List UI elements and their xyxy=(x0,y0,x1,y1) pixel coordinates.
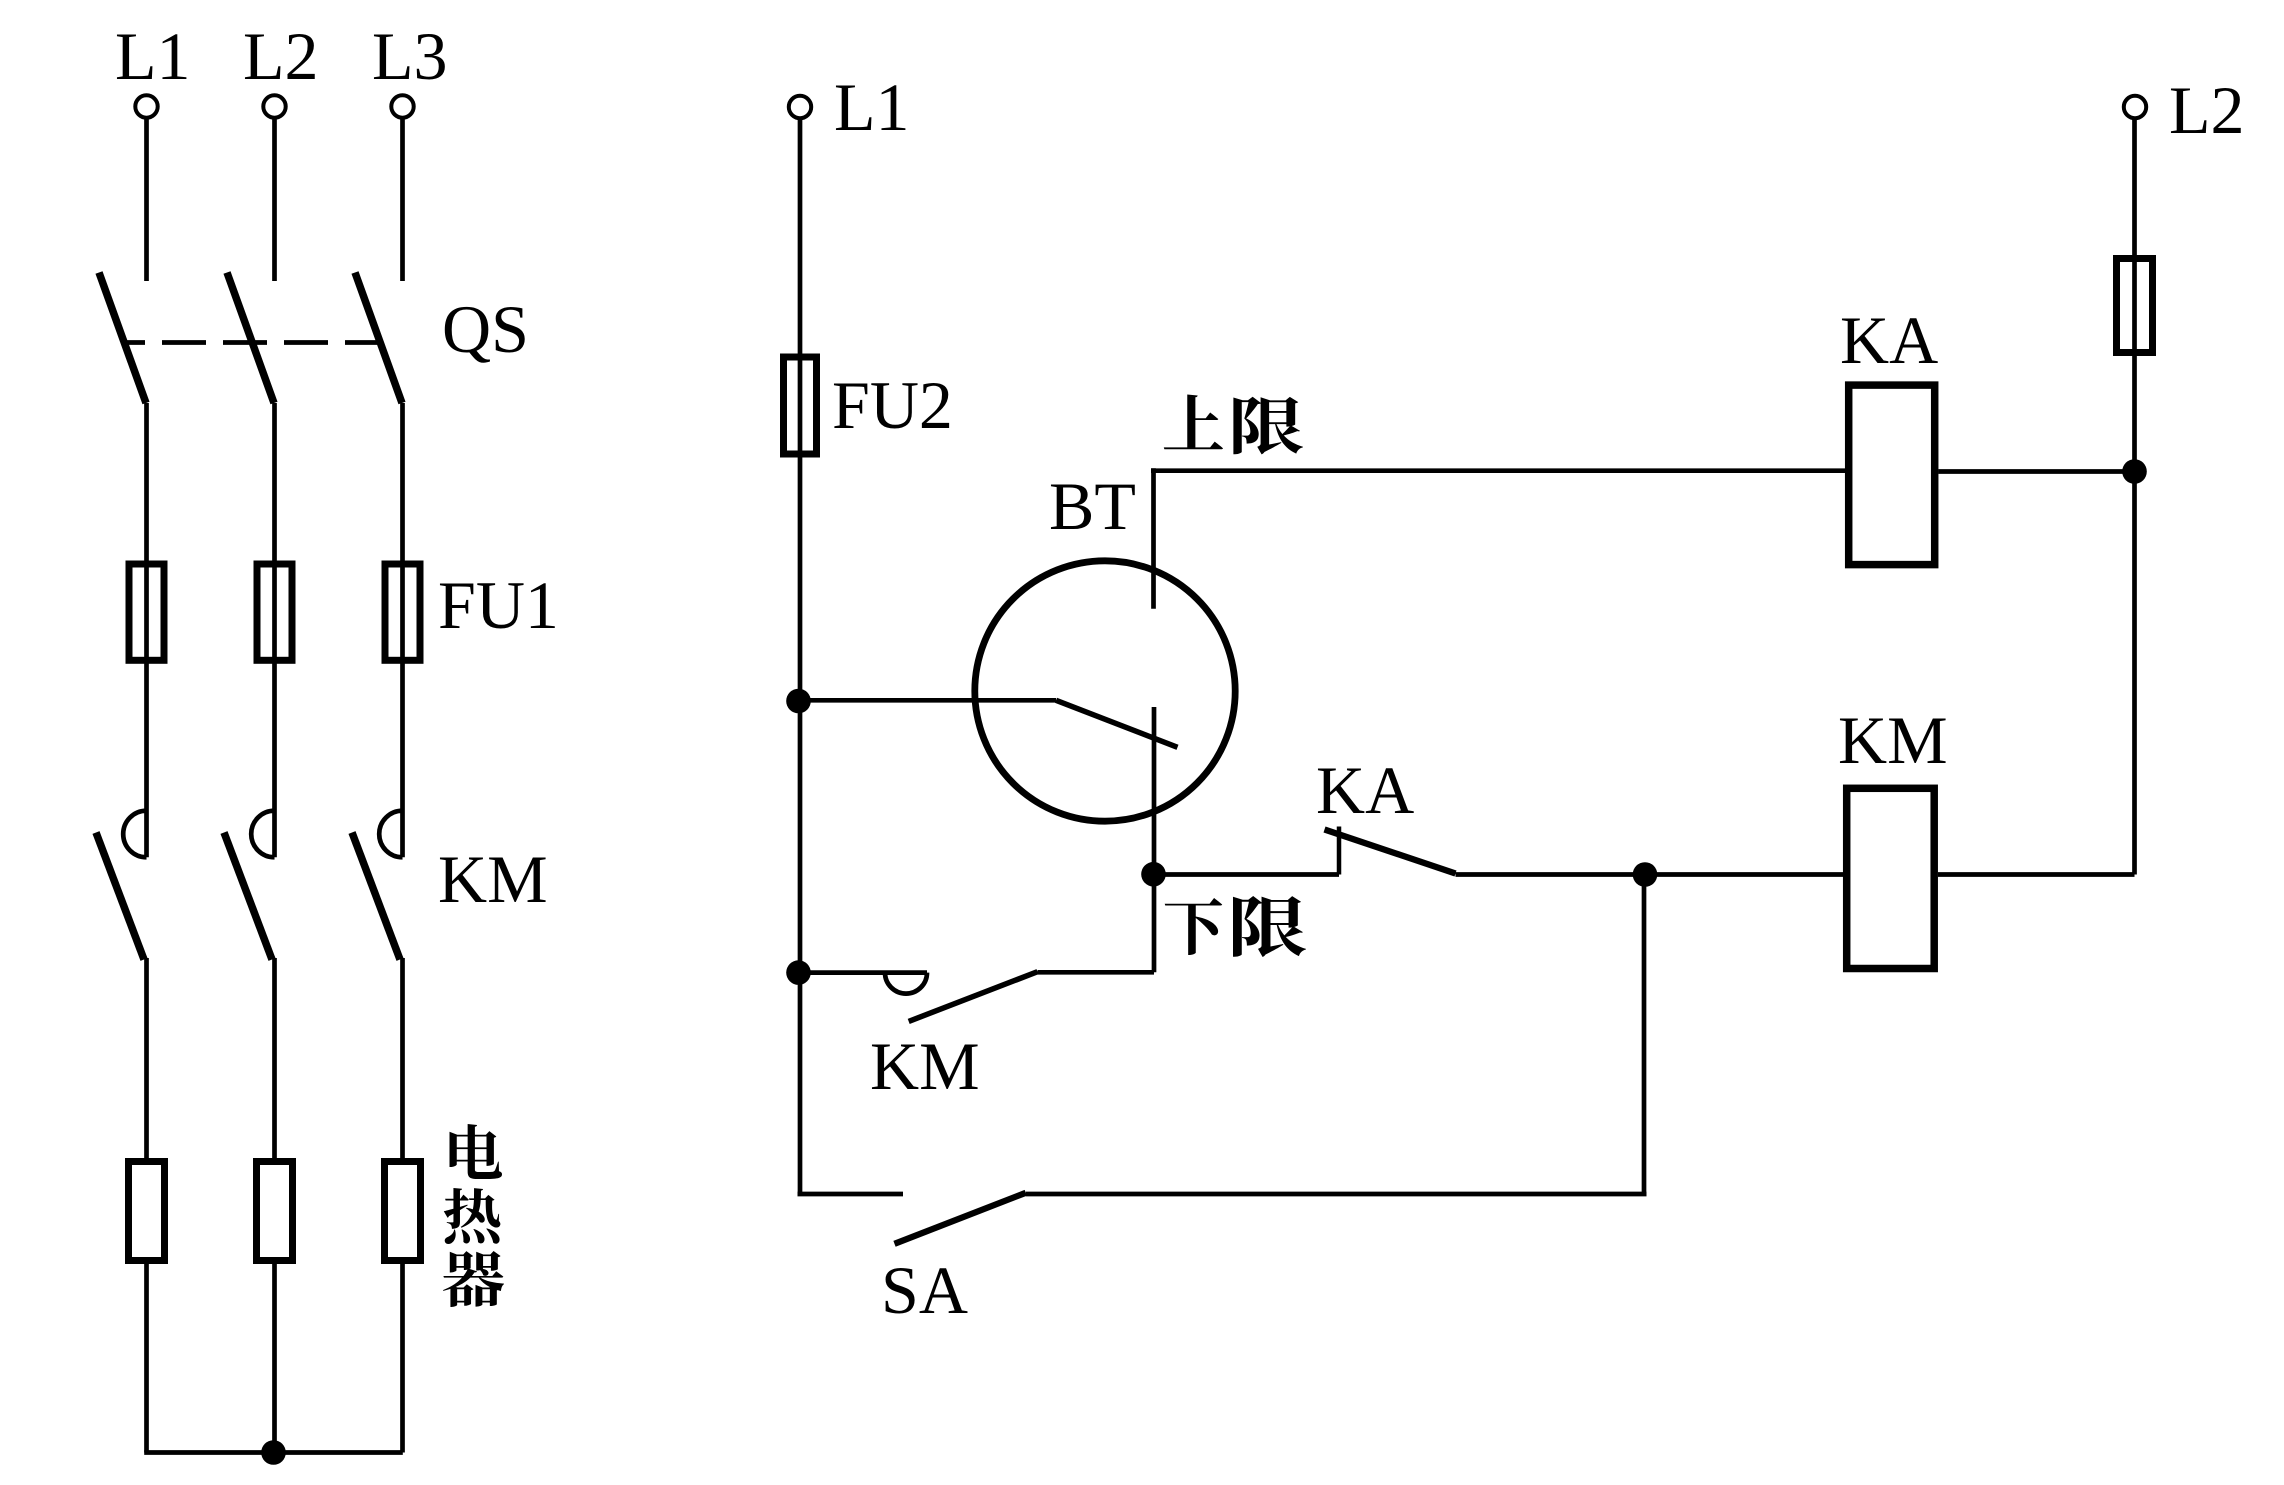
relay coil KA xyxy=(1849,385,1935,564)
svg-text:FU2: FU2 xyxy=(832,367,953,443)
switch SA blade xyxy=(895,1193,1026,1244)
terminal L1 (control) xyxy=(789,96,811,118)
left rail wire (L1 through FU2 down to SA) xyxy=(798,118,803,1195)
svg-text:KA: KA xyxy=(1840,302,1938,378)
heater element 3 xyxy=(385,1162,421,1261)
relay contact KA fixed terminal tick xyxy=(1337,827,1342,875)
svg-text:KA: KA xyxy=(1316,752,1414,828)
thermostat BT dial (circle) xyxy=(975,561,1235,821)
right rail wire (L2 down to KM coil) xyxy=(2132,118,2137,875)
svg-text:BT: BT xyxy=(1049,468,1136,544)
wire QS pole 2 to KM contact (through FU1) xyxy=(272,403,277,857)
heater element 2 xyxy=(257,1162,293,1261)
svg-text:KM: KM xyxy=(438,841,548,917)
wire QS pole 1 to KM contact (through FU1) xyxy=(144,403,149,857)
terminal L1 (power) xyxy=(135,95,157,117)
svg-text:L2: L2 xyxy=(243,18,319,94)
fuse FU2 xyxy=(784,357,817,454)
switch QS pole 2 blade xyxy=(227,273,274,404)
wire SA to riser xyxy=(1026,1192,1647,1197)
contactor KM main contact pole 3 arc xyxy=(379,811,402,858)
wire KA contact to KM node xyxy=(1456,872,1646,877)
svg-text:L1: L1 xyxy=(834,69,910,145)
terminal L3 (power) xyxy=(391,95,413,117)
wire node to KM coil xyxy=(1645,872,1843,877)
svg-text:KM: KM xyxy=(1838,702,1948,778)
switch QS pole 1 blade xyxy=(99,273,146,404)
svg-text:L2: L2 xyxy=(2169,72,2245,148)
contactor KM main contact pole 1 arc xyxy=(123,811,146,858)
wire QS pole 3 to KM contact (through FU1) xyxy=(400,403,405,857)
bottom bus wire (star point) xyxy=(144,1450,403,1455)
contactor KM main contact pole 2 arc xyxy=(251,811,274,858)
wire left rail to KM aux contact xyxy=(800,970,927,975)
fuse FU1 pole 3 xyxy=(385,564,420,660)
wire KM coil to right rail xyxy=(1938,872,2135,877)
wire left rail corner to SA xyxy=(798,1192,904,1197)
terminal L2 (control) xyxy=(2124,96,2146,118)
wire heater 2 to star point xyxy=(272,1261,277,1453)
junction node KM coil / SA riser xyxy=(1633,862,1658,887)
contactor coil KM xyxy=(1847,788,1935,968)
wire L2 drop to QS xyxy=(272,118,277,282)
svg-text:FU1: FU1 xyxy=(438,567,559,643)
wire KM pole 2 to heater xyxy=(272,958,277,1160)
contactor KM main contact pole 2 blade xyxy=(224,833,272,960)
wire lower-limit node to KA contact xyxy=(1154,872,1339,877)
wire KM pole 3 to heater xyxy=(400,958,405,1160)
contactor KM aux contact blade xyxy=(909,972,1038,1022)
svg-text:SA: SA xyxy=(881,1252,968,1328)
junction node BT common xyxy=(786,689,811,714)
junction node KM aux xyxy=(786,960,811,985)
contactor KM aux contact arc xyxy=(885,973,927,994)
junction node at star point xyxy=(261,1440,286,1465)
wire KM pole 1 to heater xyxy=(144,958,149,1160)
wire upper-limit to KA coil xyxy=(1151,468,1845,473)
heater element 1 xyxy=(129,1162,165,1261)
fuse FU1 pole 1 xyxy=(129,564,164,660)
fuse FU1 pole 2 xyxy=(257,564,292,660)
svg-text:L1: L1 xyxy=(115,18,191,94)
junction node lower-limit xyxy=(1141,862,1166,887)
wire KM aux to lower-limit drop xyxy=(1038,970,1155,975)
label 电热器 (electric heater) xyxy=(443,1124,504,1307)
thermostat BT pointer blade xyxy=(1056,700,1178,747)
wire riser to KM node xyxy=(1642,875,1647,1195)
thermostat BT lower-limit contact stub xyxy=(1152,707,1157,972)
label 下限 (lower limit) xyxy=(1165,896,1306,957)
wire BT common (left rail to pointer) xyxy=(800,698,1056,703)
wire heater 3 to star point xyxy=(400,1261,405,1453)
thermostat BT upper-limit contact stub xyxy=(1151,468,1156,609)
junction node KA / right rail xyxy=(2122,459,2147,484)
contactor KM main contact pole 1 blade xyxy=(96,833,144,960)
switch QS pole 3 blade xyxy=(355,273,402,404)
svg-text:QS: QS xyxy=(442,291,529,367)
contactor KM main contact pole 3 blade xyxy=(352,833,400,960)
relay contact KA blade xyxy=(1325,830,1456,874)
wire L1 drop to QS xyxy=(144,118,149,282)
fuse (control right, unlabeled) xyxy=(2117,259,2153,353)
svg-text:KM: KM xyxy=(870,1028,980,1104)
wire heater 1 to star point xyxy=(144,1261,149,1453)
wire KA coil to right rail xyxy=(1939,469,2135,474)
label 上限 (upper limit) xyxy=(1164,395,1303,455)
terminal L2 (power) xyxy=(263,95,285,117)
svg-text:L3: L3 xyxy=(372,18,448,94)
QS linkage (dashed) xyxy=(124,340,378,345)
wire L3 drop to QS xyxy=(400,118,405,282)
